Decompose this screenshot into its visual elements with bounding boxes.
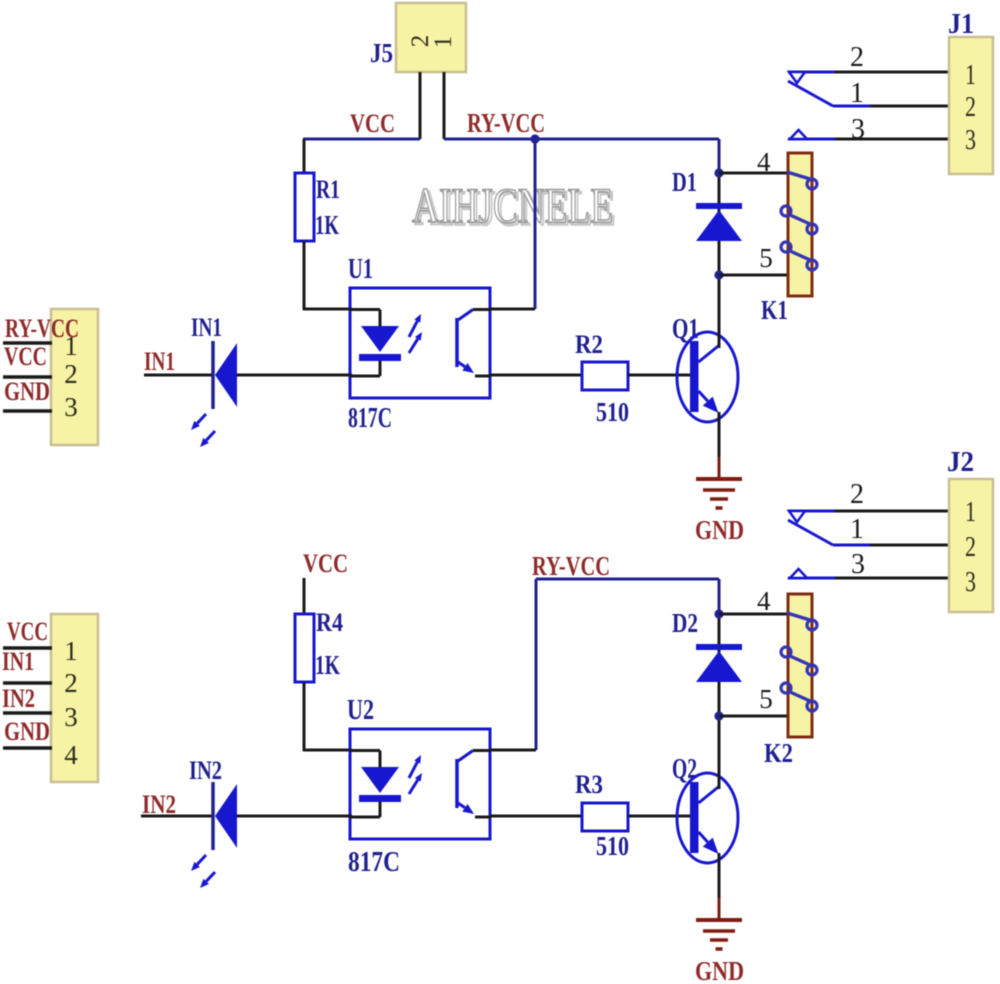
svg-text:4: 4 bbox=[64, 740, 78, 770]
svg-text:U2: U2 bbox=[347, 695, 374, 726]
svg-text:1K: 1K bbox=[315, 210, 339, 240]
svg-text:1: 1 bbox=[64, 636, 78, 666]
svg-text:D1: D1 bbox=[672, 167, 697, 197]
svg-text:2: 2 bbox=[850, 42, 864, 73]
svg-text:817C: 817C bbox=[348, 847, 400, 878]
svg-text:Q2: Q2 bbox=[672, 754, 697, 785]
svg-text:IN1: IN1 bbox=[144, 347, 175, 376]
svg-text:3: 3 bbox=[851, 549, 865, 580]
svg-text:J2: J2 bbox=[947, 447, 974, 478]
svg-text:K1: K1 bbox=[761, 295, 788, 325]
svg-text:IN2: IN2 bbox=[189, 756, 222, 785]
svg-text:817C: 817C bbox=[348, 403, 392, 434]
svg-text:1: 1 bbox=[64, 331, 78, 361]
svg-text:R4: R4 bbox=[316, 608, 343, 637]
svg-text:3: 3 bbox=[965, 566, 976, 598]
svg-text:1: 1 bbox=[850, 78, 864, 109]
svg-text:RY-VCC: RY-VCC bbox=[467, 108, 545, 138]
svg-text:4: 4 bbox=[757, 147, 771, 177]
svg-text:1: 1 bbox=[850, 514, 864, 545]
svg-text:1: 1 bbox=[430, 36, 457, 49]
svg-text:5: 5 bbox=[759, 684, 773, 714]
svg-text:J1: J1 bbox=[948, 9, 974, 40]
svg-text:Q1: Q1 bbox=[672, 314, 699, 345]
svg-text:R2: R2 bbox=[575, 330, 603, 359]
svg-text:J5: J5 bbox=[370, 38, 393, 68]
svg-text:3: 3 bbox=[64, 392, 78, 422]
svg-text:IN1: IN1 bbox=[191, 313, 222, 342]
svg-text:4: 4 bbox=[757, 586, 771, 616]
svg-text:GND: GND bbox=[4, 717, 50, 746]
svg-text:R3: R3 bbox=[575, 770, 603, 799]
svg-text:GND: GND bbox=[695, 956, 744, 984]
svg-text:5: 5 bbox=[759, 243, 773, 273]
svg-text:2: 2 bbox=[850, 479, 864, 510]
svg-text:K2: K2 bbox=[764, 738, 793, 768]
svg-text:AIHJCNELE: AIHJCNELE bbox=[412, 177, 613, 233]
svg-text:IN1: IN1 bbox=[2, 647, 34, 676]
svg-text:RY-VCC: RY-VCC bbox=[532, 551, 610, 581]
svg-text:D2: D2 bbox=[672, 608, 698, 638]
svg-text:2: 2 bbox=[965, 91, 976, 123]
svg-text:1: 1 bbox=[965, 59, 976, 91]
svg-text:VCC: VCC bbox=[303, 549, 348, 578]
svg-text:GND: GND bbox=[4, 377, 50, 406]
svg-text:VCC: VCC bbox=[350, 109, 395, 138]
svg-text:510: 510 bbox=[596, 831, 629, 861]
svg-text:R1: R1 bbox=[316, 175, 340, 204]
svg-text:510: 510 bbox=[596, 397, 629, 427]
svg-text:3: 3 bbox=[965, 124, 976, 156]
svg-text:1K: 1K bbox=[315, 650, 340, 680]
svg-text:VCC: VCC bbox=[4, 342, 47, 371]
svg-text:U1: U1 bbox=[348, 254, 373, 285]
svg-text:3: 3 bbox=[64, 702, 78, 732]
svg-text:VCC: VCC bbox=[7, 617, 48, 646]
svg-text:2: 2 bbox=[64, 359, 78, 389]
svg-text:GND: GND bbox=[695, 515, 744, 545]
svg-text:3: 3 bbox=[851, 114, 865, 145]
svg-text:2: 2 bbox=[965, 531, 976, 563]
svg-text:1: 1 bbox=[965, 496, 976, 528]
svg-text:2: 2 bbox=[64, 668, 78, 698]
svg-text:IN2: IN2 bbox=[2, 684, 35, 713]
